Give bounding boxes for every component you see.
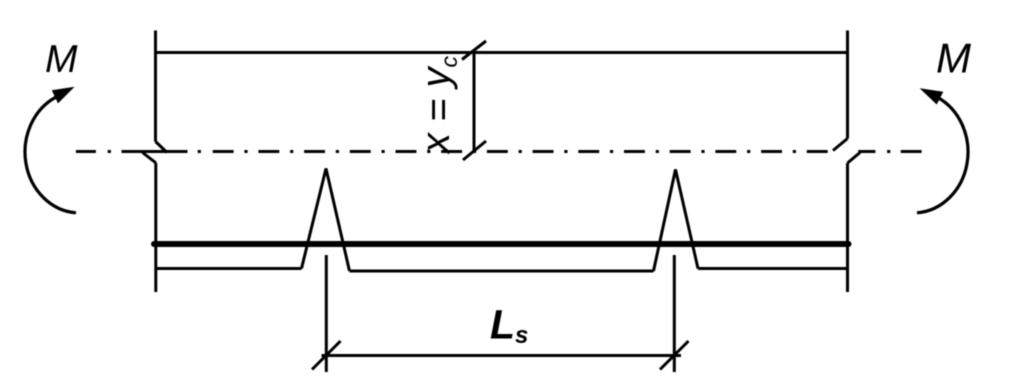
left edge break lower diagonal — [143, 153, 157, 164]
left moment arrowhead — [52, 87, 75, 104]
beam left edge (upper segment) — [154, 31, 157, 142]
neutral axis centerline (dash-dot) — [76, 150, 922, 153]
right edge break lower diagonal — [848, 153, 861, 164]
svg-text:x = yc: x = yc — [414, 55, 462, 155]
svg-text:M: M — [936, 35, 971, 82]
bottom chord middle segment — [350, 270, 654, 273]
crack 2 — [654, 170, 699, 272]
crack 1 — [302, 169, 350, 272]
beam right edge (upper segment) — [846, 31, 849, 139]
right moment arrow arc — [917, 97, 968, 213]
reinforcement bar — [154, 241, 849, 247]
left moment arrow arc — [25, 97, 76, 213]
Ls extension line left — [325, 255, 328, 372]
Ls left tick — [312, 341, 341, 370]
x=yc top tick — [462, 41, 486, 60]
beam top chord — [156, 51, 848, 54]
bottom chord right segment — [698, 267, 848, 270]
Ls extension line right — [673, 255, 676, 372]
right moment arrowhead — [920, 88, 944, 104]
Ls right tick — [660, 341, 689, 370]
beam right edge (lower segment) — [846, 163, 849, 292]
svg-text:M: M — [45, 38, 78, 81]
Ls dimension line — [322, 354, 682, 357]
left edge break upper diagonal — [156, 142, 168, 153]
beam left edge (lower segment) — [154, 163, 157, 292]
x=yc dimension line — [473, 53, 476, 152]
right edge break upper diagonal — [833, 139, 848, 151]
bottom chord left segment — [156, 267, 302, 270]
x=yc bottom tick — [463, 141, 486, 160]
